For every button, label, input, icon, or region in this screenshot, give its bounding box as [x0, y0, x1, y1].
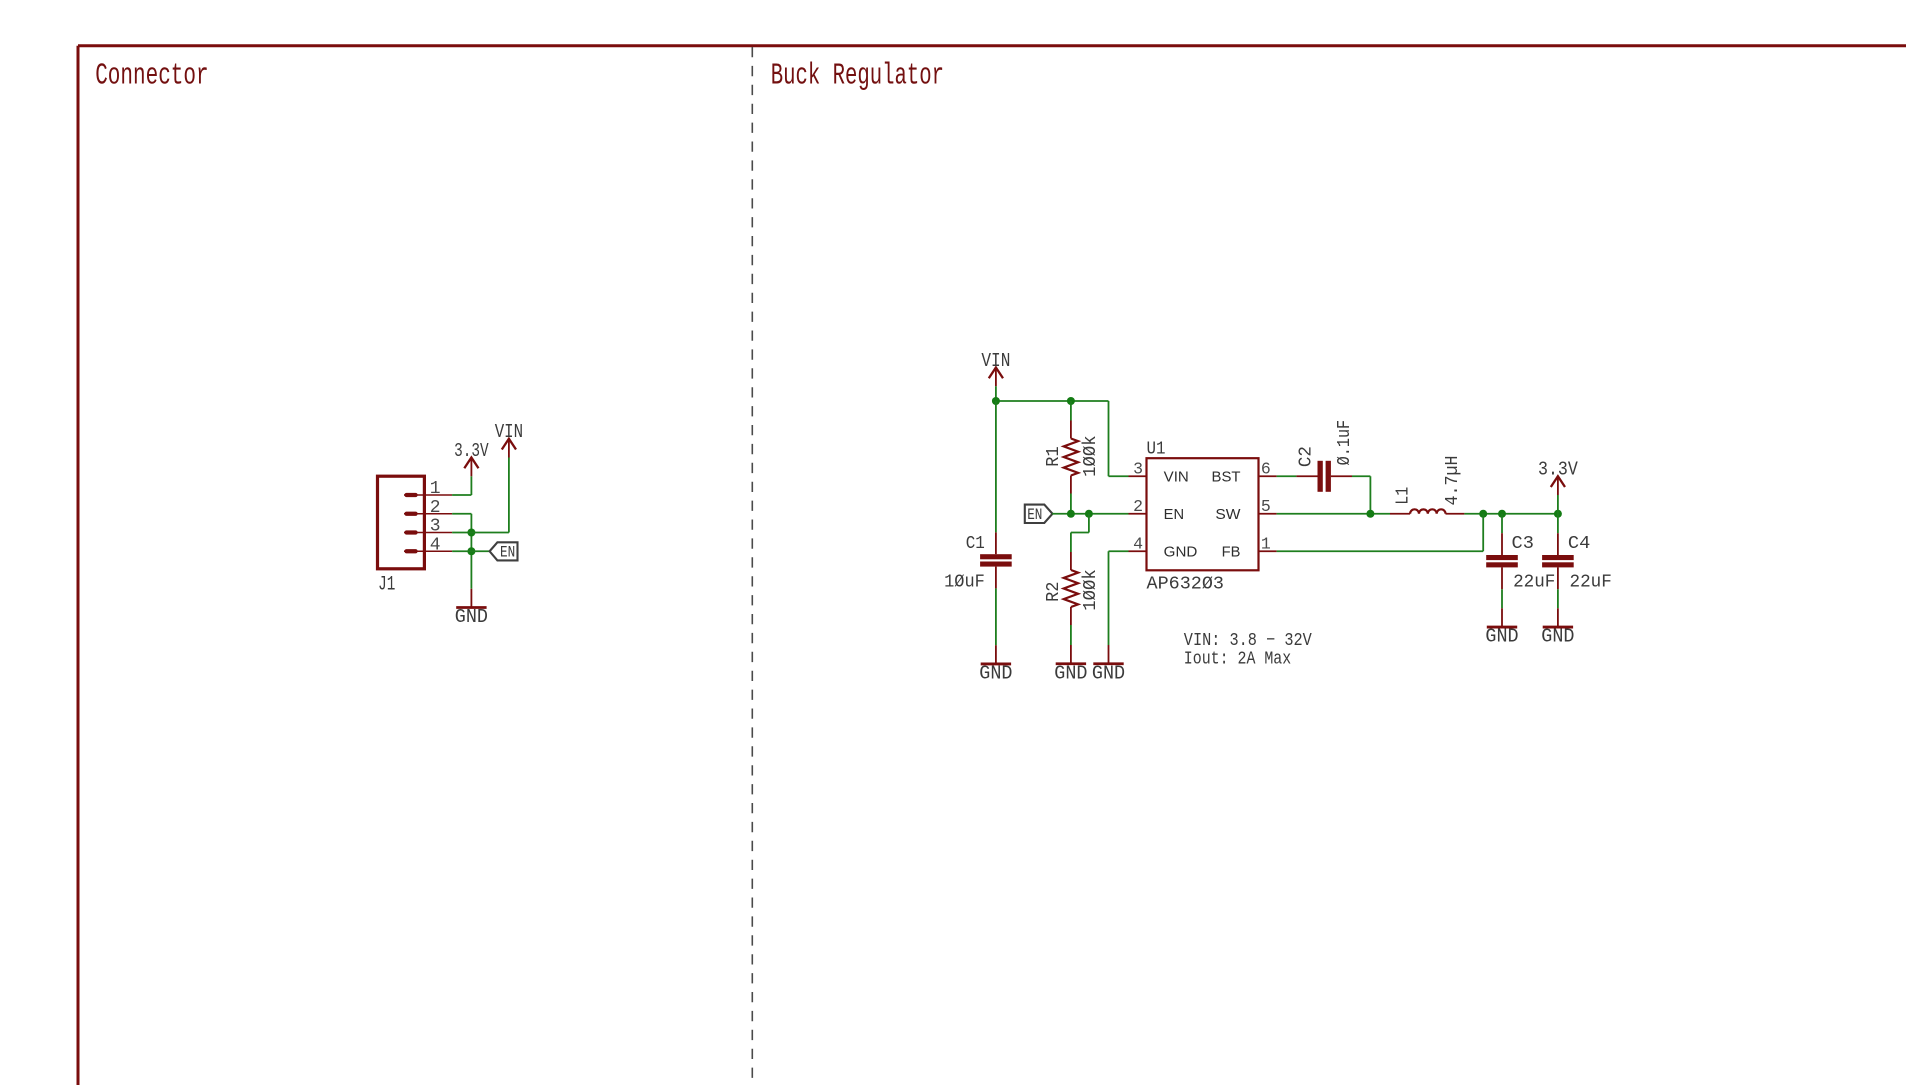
svg-text:EN: EN	[500, 544, 515, 562]
svg-text:1ØuF: 1ØuF	[944, 572, 985, 592]
svg-text:GND: GND	[1541, 626, 1574, 648]
svg-text:GND: GND	[979, 663, 1012, 685]
svg-text:BST: BST	[1212, 469, 1241, 485]
svg-text:2: 2	[1133, 497, 1143, 516]
svg-text:GND: GND	[455, 606, 488, 628]
svg-text:GND: GND	[1054, 662, 1087, 684]
svg-text:4.7µH: 4.7µH	[1443, 456, 1463, 506]
svg-text:4: 4	[1133, 535, 1143, 554]
svg-text:C2: C2	[1297, 446, 1317, 467]
svg-text:4: 4	[430, 535, 441, 555]
svg-text:3.3V: 3.3V	[454, 440, 489, 462]
svg-text:VIN: VIN	[1164, 469, 1189, 485]
svg-text:3.3V: 3.3V	[1538, 459, 1578, 481]
svg-text:C1: C1	[966, 534, 985, 554]
svg-text:22uF: 22uF	[1570, 572, 1612, 592]
svg-text:1ØØk: 1ØØk	[1081, 569, 1101, 611]
svg-text:VIN: VIN	[981, 350, 1010, 372]
svg-text:EN: EN	[1164, 507, 1184, 523]
svg-text:6: 6	[1261, 460, 1271, 479]
svg-text:R1: R1	[1044, 446, 1064, 466]
svg-text:SW: SW	[1215, 507, 1240, 523]
svg-text:Iout: 2A Max: Iout: 2A Max	[1184, 648, 1291, 669]
svg-text:J1: J1	[378, 573, 395, 596]
svg-text:Buck Regulator: Buck Regulator	[771, 60, 944, 94]
svg-text:C3: C3	[1512, 534, 1534, 554]
svg-text:AP632Ø3: AP632Ø3	[1147, 574, 1225, 594]
svg-text:22uF: 22uF	[1513, 572, 1555, 592]
svg-text:U1: U1	[1147, 440, 1166, 460]
svg-text:EN: EN	[1027, 506, 1042, 524]
svg-text:GND: GND	[1485, 626, 1518, 648]
svg-text:1: 1	[430, 479, 441, 499]
svg-text:1: 1	[1261, 535, 1271, 554]
svg-text:Ø.1uF: Ø.1uF	[1335, 420, 1355, 466]
svg-text:GND: GND	[1092, 662, 1125, 684]
svg-text:FB: FB	[1222, 544, 1241, 560]
svg-text:5: 5	[1261, 497, 1271, 516]
svg-text:1ØØk: 1ØØk	[1081, 435, 1101, 477]
svg-text:3: 3	[430, 517, 441, 537]
svg-text:GND: GND	[1164, 544, 1198, 560]
svg-text:2: 2	[430, 498, 441, 518]
svg-text:C4: C4	[1568, 534, 1590, 554]
svg-text:R2: R2	[1044, 582, 1064, 602]
svg-text:Connector: Connector	[95, 60, 208, 94]
svg-text:3: 3	[1133, 460, 1143, 479]
svg-text:VIN: VIN	[495, 421, 523, 443]
svg-text:L1: L1	[1393, 487, 1413, 505]
